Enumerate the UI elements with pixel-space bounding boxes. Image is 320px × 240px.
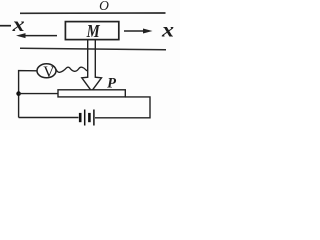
block M box (65, 22, 118, 40)
wire: battery left side to left vertical (19, 117, 79, 119)
wire: left vertical (battery to voltmeter) (19, 71, 37, 118)
battery cell 2 positive plate (long thin) (93, 110, 95, 126)
svg-text:O: O (99, 0, 109, 13)
junction node (dot) (16, 91, 21, 96)
battery cell 1 positive plate (long thin) (84, 110, 86, 126)
battery cell 1 negative plate (short thick) (79, 113, 82, 122)
battery cell 2 negative plate (short thick) (88, 113, 91, 122)
top rail (20, 12, 166, 14)
wire: node to potentiometer left end (19, 93, 58, 95)
svg-text:x: x (161, 18, 174, 41)
left direction arrow (24, 35, 57, 37)
svg-text:V: V (43, 64, 55, 81)
lower rail (20, 48, 166, 50)
svg-text:x: x (12, 13, 25, 36)
right direction arrow (124, 30, 145, 32)
voltmeter V (37, 64, 56, 78)
wire: potentiometer right to battery (right side) (95, 97, 150, 118)
svg-text:P: P (107, 76, 116, 92)
slider arrow (hollow, from M down to P wiper) (82, 40, 102, 92)
potentiometer P body (58, 90, 125, 97)
wavy wire: voltmeter to slider (56, 67, 87, 72)
label -x (left axis label) (0, 25, 11, 27)
svg-text:M: M (86, 21, 101, 42)
